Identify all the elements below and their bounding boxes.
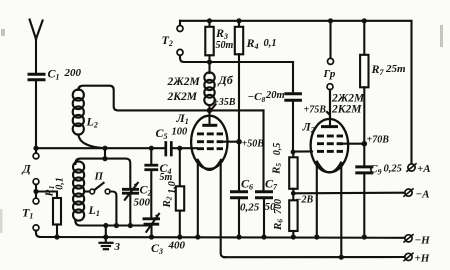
wire Л1 right filament leg to +H rail [221, 161, 225, 258]
terminal -H [404, 235, 430, 247]
node Л1 top cap [207, 108, 213, 114]
wire tank top edge [75, 159, 130, 188]
terminal T1 (jack pair) [22, 198, 41, 237]
svg-text:2К2М: 2К2М [167, 91, 198, 103]
Л2 filament [317, 162, 341, 173]
wire +H rail [224, 256, 404, 258]
capacitor C6 [232, 142, 260, 240]
coil L2 [73, 89, 98, 134]
node +70В [362, 135, 390, 147]
node Л2 grid [291, 150, 296, 155]
resistor R2 [161, 148, 184, 239]
wire L2 bottom lead to line A [78, 134, 105, 148]
capacitor C7 [257, 110, 279, 239]
wire Л2 right filament leg to +H rail [340, 163, 342, 257]
capacitor C3 (variable) [144, 214, 186, 256]
svg-text:+75В: +75В [304, 105, 327, 116]
svg-text:0,25: 0,25 [384, 164, 402, 175]
wire T2 line to C8 [180, 55, 293, 62]
wire C4 to C3 [150, 171, 152, 217]
Л1 filament [198, 160, 221, 170]
svg-text:700: 700 [273, 199, 284, 214]
svg-text:0,25: 0,25 [240, 202, 260, 214]
scan artifact right edge [440, 25, 443, 47]
wire Д to T1 with junction [33, 185, 38, 199]
wire L2 top lead to C7 branch (regeneration line) [78, 86, 263, 111]
choke Дб [204, 62, 233, 110]
Л1 grid row 2 (screen, exits right) [197, 140, 223, 143]
wire Л1 left filament leg to -H rail [197, 161, 199, 238]
svg-text:+35В: +35В [213, 97, 236, 108]
terminal +A [407, 163, 431, 175]
capacitor C2 (variable) [123, 183, 151, 229]
wire -A rail [293, 192, 405, 195]
svg-text:0,1: 0,1 [264, 38, 277, 49]
svg-text:Д: Д [22, 162, 32, 176]
Л2 anode bar [323, 125, 337, 128]
svg-text:200: 200 [64, 67, 82, 79]
Л2 grid row 1 [317, 135, 343, 138]
wire stub line A to tank top [104, 148, 106, 158]
switch П [84, 171, 119, 229]
wire C8 to Л2 grid [293, 150, 312, 152]
wire antenna to line A [35, 81, 37, 148]
wire top rail (+A bus) [180, 21, 412, 164]
svg-text:Дб: Дб [218, 73, 234, 87]
resistor R6 [272, 193, 298, 239]
svg-text:0,1: 0,1 [55, 177, 66, 190]
terminal -A [404, 189, 430, 201]
svg-text:+H: +H [415, 253, 430, 265]
wire -H rail [41, 236, 404, 239]
svg-text:500: 500 [134, 197, 151, 209]
svg-text:20m: 20m [265, 90, 285, 101]
node: line A / C4 branch [149, 146, 154, 151]
svg-text:+70В: +70В [367, 135, 390, 146]
wire line A (grid bus to C5) [36, 147, 165, 149]
label tube type Л1 [167, 76, 201, 103]
tube Л1 (2Ж2М/2К2М) [176, 108, 240, 170]
wire tank left bottom corner [75, 220, 80, 226]
capacitor C9 [357, 144, 402, 240]
svg-text:+A: +A [417, 163, 431, 175]
resistor R1 [36, 177, 66, 239]
terminal Д (jack pair) [22, 148, 39, 184]
label +35В with arrow [212, 97, 236, 109]
wire tank bottom line [80, 224, 150, 226]
capacitor C5 [156, 126, 198, 155]
svg-text:+50В: +50В [242, 139, 265, 150]
node: line A / tank stub [102, 146, 107, 151]
label +75В with arrow [304, 105, 330, 116]
svg-text:Гр: Гр [323, 68, 336, 80]
ground [100, 223, 121, 253]
node: junction antenna / line A / terminal Д [33, 146, 38, 151]
svg-text:−A: −A [416, 189, 430, 201]
Л1 anode bar [204, 124, 216, 127]
svg-text:0,5: 0,5 [272, 143, 283, 156]
Л1 grid row 3 (control grid) [197, 147, 223, 150]
label tube type Л2 [331, 93, 365, 116]
node -2В (bias tap) [291, 191, 314, 206]
scan artifact left edge [0, 209, 3, 233]
svg-text:50m: 50m [216, 40, 234, 51]
svg-text:1,0: 1,0 [167, 181, 178, 194]
svg-text:25m: 25m [385, 63, 406, 75]
node: line A / R2 branch [177, 146, 182, 151]
Л1 grid row 1 [197, 132, 223, 135]
antenna [30, 20, 43, 73]
svg-text:400: 400 [168, 240, 186, 252]
resistor R3 [205, 18, 233, 64]
svg-text:2К2М: 2К2М [331, 104, 362, 116]
coil L1 [73, 161, 100, 220]
resistor R5 [271, 143, 298, 194]
svg-text:−H: −H [415, 235, 431, 247]
svg-text:100: 100 [172, 127, 189, 138]
Л2 grid row 3 (control grid) [317, 150, 343, 153]
capacitor C8 [248, 62, 301, 152]
node +50В (Л1 screen node) [236, 139, 264, 150]
svg-text:2Ж2М: 2Ж2М [167, 76, 201, 88]
tube Л2 (2Ж2М/2К2М) [302, 119, 365, 173]
resistor R7 [360, 18, 406, 144]
terminal +H [404, 253, 430, 265]
capacitor C4 [146, 148, 173, 183]
wire Л2 left filament leg to -H rail [316, 162, 318, 237]
svg-text:П: П [94, 171, 104, 183]
terminal Гр (phones jack pair) [323, 18, 336, 118]
terminal T2 (jack pair) [162, 21, 184, 56]
resistor R4 [235, 18, 277, 142]
capacitor C1 [29, 67, 82, 82]
Л2 grid row 2 (exits right) [317, 142, 343, 145]
svg-text:3: 3 [114, 241, 121, 253]
